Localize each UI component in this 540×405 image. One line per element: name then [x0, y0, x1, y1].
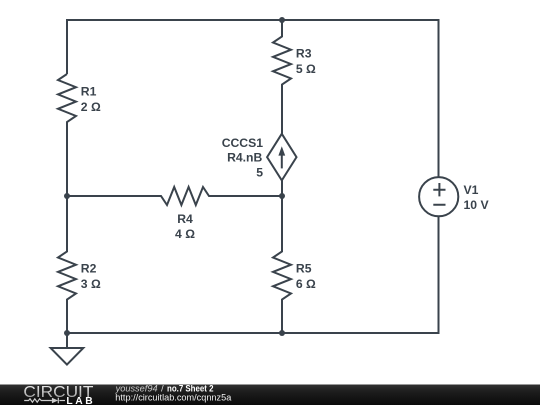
svg-text:R1: R1: [81, 84, 97, 98]
svg-text:V1: V1: [464, 183, 479, 197]
svg-text:R5: R5: [296, 262, 312, 276]
svg-text:6 Ω: 6 Ω: [296, 277, 316, 291]
svg-text:R2: R2: [81, 262, 97, 276]
svg-text:R3: R3: [296, 47, 312, 61]
svg-text:10 V: 10 V: [464, 198, 490, 212]
svg-text:R4: R4: [177, 212, 193, 226]
svg-text:3 Ω: 3 Ω: [81, 277, 101, 291]
svg-text:http://circuitlab.com/cqnnz5a: http://circuitlab.com/cqnnz5a: [115, 393, 232, 404]
svg-text:4 Ω: 4 Ω: [175, 227, 195, 241]
svg-text:R4.nB: R4.nB: [227, 151, 262, 165]
svg-text:5 Ω: 5 Ω: [296, 62, 316, 76]
svg-text:5: 5: [256, 165, 263, 179]
svg-text:LAB: LAB: [66, 396, 92, 405]
svg-text:CCCS1: CCCS1: [222, 136, 264, 150]
svg-text:2 Ω: 2 Ω: [81, 100, 101, 114]
